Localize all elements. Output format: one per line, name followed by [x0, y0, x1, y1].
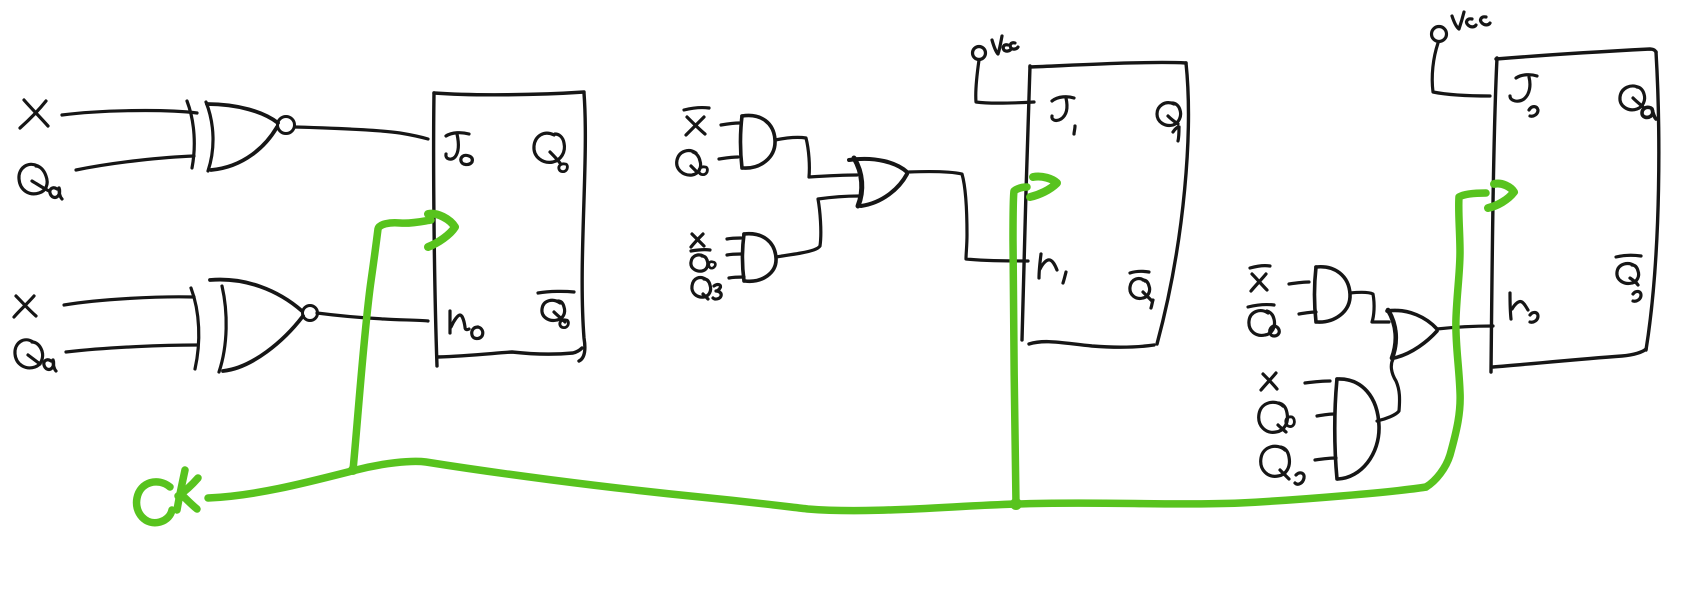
wire OR G5 output to K1 [909, 172, 1028, 261]
pin label Q1 [1157, 103, 1181, 141]
wire Vcc to J2 [1432, 43, 1490, 96]
input label X-bar (right) [1250, 266, 1270, 291]
AND gate G6 [1289, 267, 1350, 322]
input label Q0-bar (right) [1248, 305, 1279, 336]
wire G6 output to OR G8 [1350, 292, 1389, 322]
input label Q3 (middle) [692, 278, 721, 299]
wire XNOR G2 output to K0 [317, 313, 428, 321]
AND gate G7 [1305, 379, 1379, 479]
clock junction dot (U2 branch) [1010, 498, 1022, 510]
flip-flop U1 body [434, 92, 586, 366]
clock caret at U2 [1030, 176, 1057, 197]
pin label K0 [450, 311, 483, 339]
clock branch wire to U3 [1426, 193, 1486, 487]
input label Q0-bar (middle) [691, 250, 716, 272]
wire OR G8 output to K2 [1437, 326, 1493, 329]
input label Q2 (top-left) [19, 164, 62, 199]
clock caret at U3 [1488, 184, 1514, 208]
pin label Q0 [534, 133, 567, 171]
wire X to XNOR G2 top input [64, 297, 194, 305]
wire G4 output to OR G5 [776, 196, 859, 257]
flip-flop U3 body [1491, 49, 1659, 372]
clock label Ck [137, 470, 198, 523]
clock wire main run [208, 461, 1426, 510]
XNOR gate G2 (drives K0) [191, 280, 318, 372]
flip-flop U2 body [1022, 62, 1188, 347]
input label x (middle small) [691, 234, 704, 247]
input label X (bottom-left) [14, 296, 36, 317]
Vcc symbol (for J2) [1432, 12, 1491, 42]
clock caret at U1 [428, 214, 455, 247]
input label Q0 (middle) [677, 151, 708, 176]
clock branch wire to U1 [353, 220, 431, 470]
pin label K1 [1039, 254, 1066, 283]
input label X (right-low) [1261, 373, 1277, 390]
input label Q2 (right-low) [1261, 446, 1304, 484]
wire G7 output to OR G8 [1377, 359, 1400, 421]
pin label Q2 (top) [1620, 86, 1656, 119]
input label X-bar (middle) [684, 108, 709, 135]
OR gate G5 [849, 158, 907, 206]
OR gate G8 [1387, 310, 1437, 358]
pin label Q0-bar [538, 291, 574, 327]
wire Vcc to J1 [976, 60, 1034, 103]
pin label K2 [1510, 293, 1538, 322]
wire XNOR G1 output to J0 [295, 127, 428, 139]
pin label J2 [1510, 75, 1538, 117]
wire Q2 to XNOR G2 bottom input [66, 345, 198, 352]
clock branch wire to U2 [1013, 187, 1027, 504]
Vcc symbol (for J1) [973, 36, 1019, 60]
input label X (top-left) [20, 100, 48, 128]
wire X to XNOR G1 top input [62, 111, 197, 115]
AND gate G3 [719, 115, 775, 168]
pin label Q1-bar [1130, 271, 1153, 308]
wire Q2 to XNOR G1 bottom input [76, 156, 194, 170]
wire G3 output to OR G5 [775, 137, 857, 177]
pin label Q2-bar [1616, 255, 1641, 301]
pin label J1 [1052, 97, 1075, 134]
XNOR gate G1 (drives J0) [187, 101, 295, 171]
clock junction dot (U1 branch) [348, 465, 358, 475]
input label Q2 (bottom-left) [15, 340, 56, 371]
pin label J0 [446, 133, 472, 165]
AND gate G4 [727, 234, 776, 282]
input label Q6 (right-low) [1259, 402, 1295, 432]
